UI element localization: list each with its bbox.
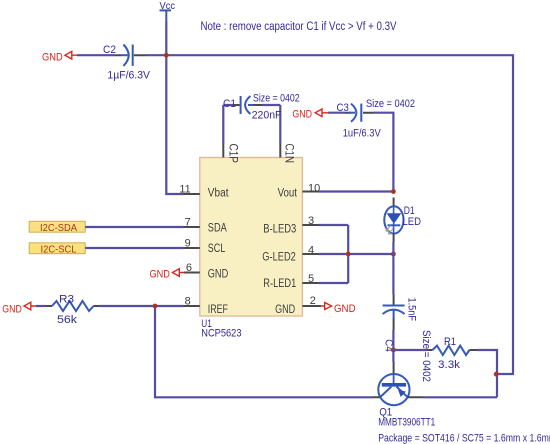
svg-text:1uF/6.3V: 1uF/6.3V — [343, 128, 382, 140]
net label I2C-SDA — [29, 221, 85, 234]
svg-text:R-LED1: R-LED1 — [263, 278, 296, 290]
svg-text:GND: GND — [208, 269, 228, 281]
svg-text:Note : remove capacitor C1 if: Note : remove capacitor C1 if Vcc > Vf +… — [201, 21, 397, 33]
svg-text:1.5nF: 1.5nF — [406, 298, 418, 322]
svg-text:1µF/6.3V: 1µF/6.3V — [107, 70, 150, 82]
wire Vout to LED — [319, 190, 394, 192]
svg-text:GND: GND — [275, 304, 295, 316]
svg-text:220nF: 220nF — [252, 110, 282, 122]
IC U1 NCP5623 body — [200, 158, 303, 340]
resistor R3 — [36, 294, 184, 326]
net label I2C-SCL — [29, 243, 85, 256]
pin stubs top — [223, 144, 280, 158]
svg-text:IREF: IREF — [208, 304, 228, 316]
ground GND at C2 — [42, 51, 77, 63]
svg-text:R1: R1 — [444, 336, 456, 348]
svg-text:3: 3 — [308, 215, 314, 227]
capacitor C4 — [383, 295, 418, 352]
wire LED bus vertical — [347, 225, 349, 283]
svg-text:Package = SOT416 / SC75 = 1.6m: Package = SOT416 / SC75 = 1.6mm x 1.6mm — [378, 432, 550, 444]
resistor R1 — [393, 336, 497, 397]
svg-text:C3: C3 — [337, 102, 349, 114]
wire top rail right + right rail down — [147, 55, 513, 374]
svg-text:GND: GND — [292, 109, 312, 121]
svg-text:SDA: SDA — [208, 223, 227, 235]
svg-text:6: 6 — [186, 262, 192, 274]
svg-text:10: 10 — [308, 182, 320, 194]
svg-text:GND: GND — [2, 304, 22, 316]
junction rail/R1/emitter — [494, 372, 499, 377]
svg-text:2: 2 — [310, 295, 316, 307]
svg-text:LED: LED — [403, 216, 422, 228]
svg-text:I2C-SDA: I2C-SDA — [40, 222, 77, 234]
svg-text:11: 11 — [179, 183, 190, 195]
svg-text:B-LED3: B-LED3 — [263, 223, 296, 235]
svg-text:GND: GND — [334, 303, 356, 315]
junction bus/pin4 — [346, 252, 351, 257]
svg-text:G-LED2: G-LED2 — [262, 251, 296, 263]
transistor Q1 — [372, 374, 550, 444]
capacitor C3 — [328, 98, 415, 192]
ground GND at pin 6 — [150, 269, 185, 281]
svg-text:GND: GND — [42, 52, 63, 64]
svg-text:I2C-SCL: I2C-SCL — [41, 243, 77, 255]
wire top rail left of Vcc — [77, 54, 115, 56]
power symbol Vcc — [160, 0, 176, 21]
ground GND at C3 — [292, 109, 328, 121]
wire pin3 B-LED3 — [319, 224, 349, 226]
svg-text:SCL: SCL — [208, 243, 226, 255]
svg-text:R3: R3 — [59, 294, 74, 306]
junction Vcc/top-rail — [164, 53, 169, 58]
svg-text:3.3k: 3.3k — [438, 359, 461, 371]
pin stubs right — [302, 192, 321, 307]
svg-text:Vout: Vout — [278, 187, 298, 199]
svg-text:Size = 0402: Size = 0402 — [366, 98, 415, 110]
svg-text:C1N: C1N — [283, 144, 295, 164]
svg-text:C1: C1 — [223, 98, 236, 110]
svg-text:NCP5623: NCP5623 — [201, 328, 241, 340]
wire pin5 R-LED1 — [319, 282, 349, 284]
svg-text:C2: C2 — [103, 44, 116, 56]
svg-text:5: 5 — [308, 273, 314, 285]
junction R3/IREF — [153, 304, 158, 309]
svg-text:8: 8 — [185, 295, 191, 307]
svg-text:7: 7 — [185, 216, 191, 228]
svg-text:Vbat: Vbat — [208, 187, 229, 199]
junction Vout/C3 — [391, 189, 396, 194]
capacitor C1 — [223, 93, 300, 145]
wire emitter to rail corner — [423, 396, 497, 398]
ground GND at R3 — [2, 302, 36, 315]
junction pin4/LED line — [391, 252, 396, 257]
ground GND at pin 2 — [321, 303, 356, 316]
diode D1 LED — [384, 198, 421, 243]
pin stubs left — [184, 194, 200, 306]
wire Vcc stem down to Vbat row — [166, 21, 183, 194]
junction C4/R1/base — [391, 348, 396, 353]
wire C4 to junction — [392, 330, 394, 350]
svg-text:9: 9 — [185, 237, 191, 249]
svg-text:56k: 56k — [57, 314, 78, 326]
wire IREF branch down and across bottom — [155, 306, 372, 397]
svg-text:GND: GND — [150, 269, 170, 281]
wire base down to Q1 — [392, 350, 394, 362]
svg-text:C1P: C1P — [227, 144, 239, 164]
svg-text:Size = 0402: Size = 0402 — [420, 330, 432, 382]
wire SCL — [85, 247, 183, 249]
wire SDA — [85, 226, 183, 228]
capacitor C2 — [103, 44, 151, 82]
svg-text:MMBT3906TT1: MMBT3906TT1 — [378, 417, 435, 429]
wire LED to C4 — [392, 242, 394, 295]
svg-text:Size = 0402: Size = 0402 — [253, 93, 300, 105]
svg-text:4: 4 — [308, 245, 314, 257]
wire pin4 G-LED2 — [319, 253, 394, 255]
